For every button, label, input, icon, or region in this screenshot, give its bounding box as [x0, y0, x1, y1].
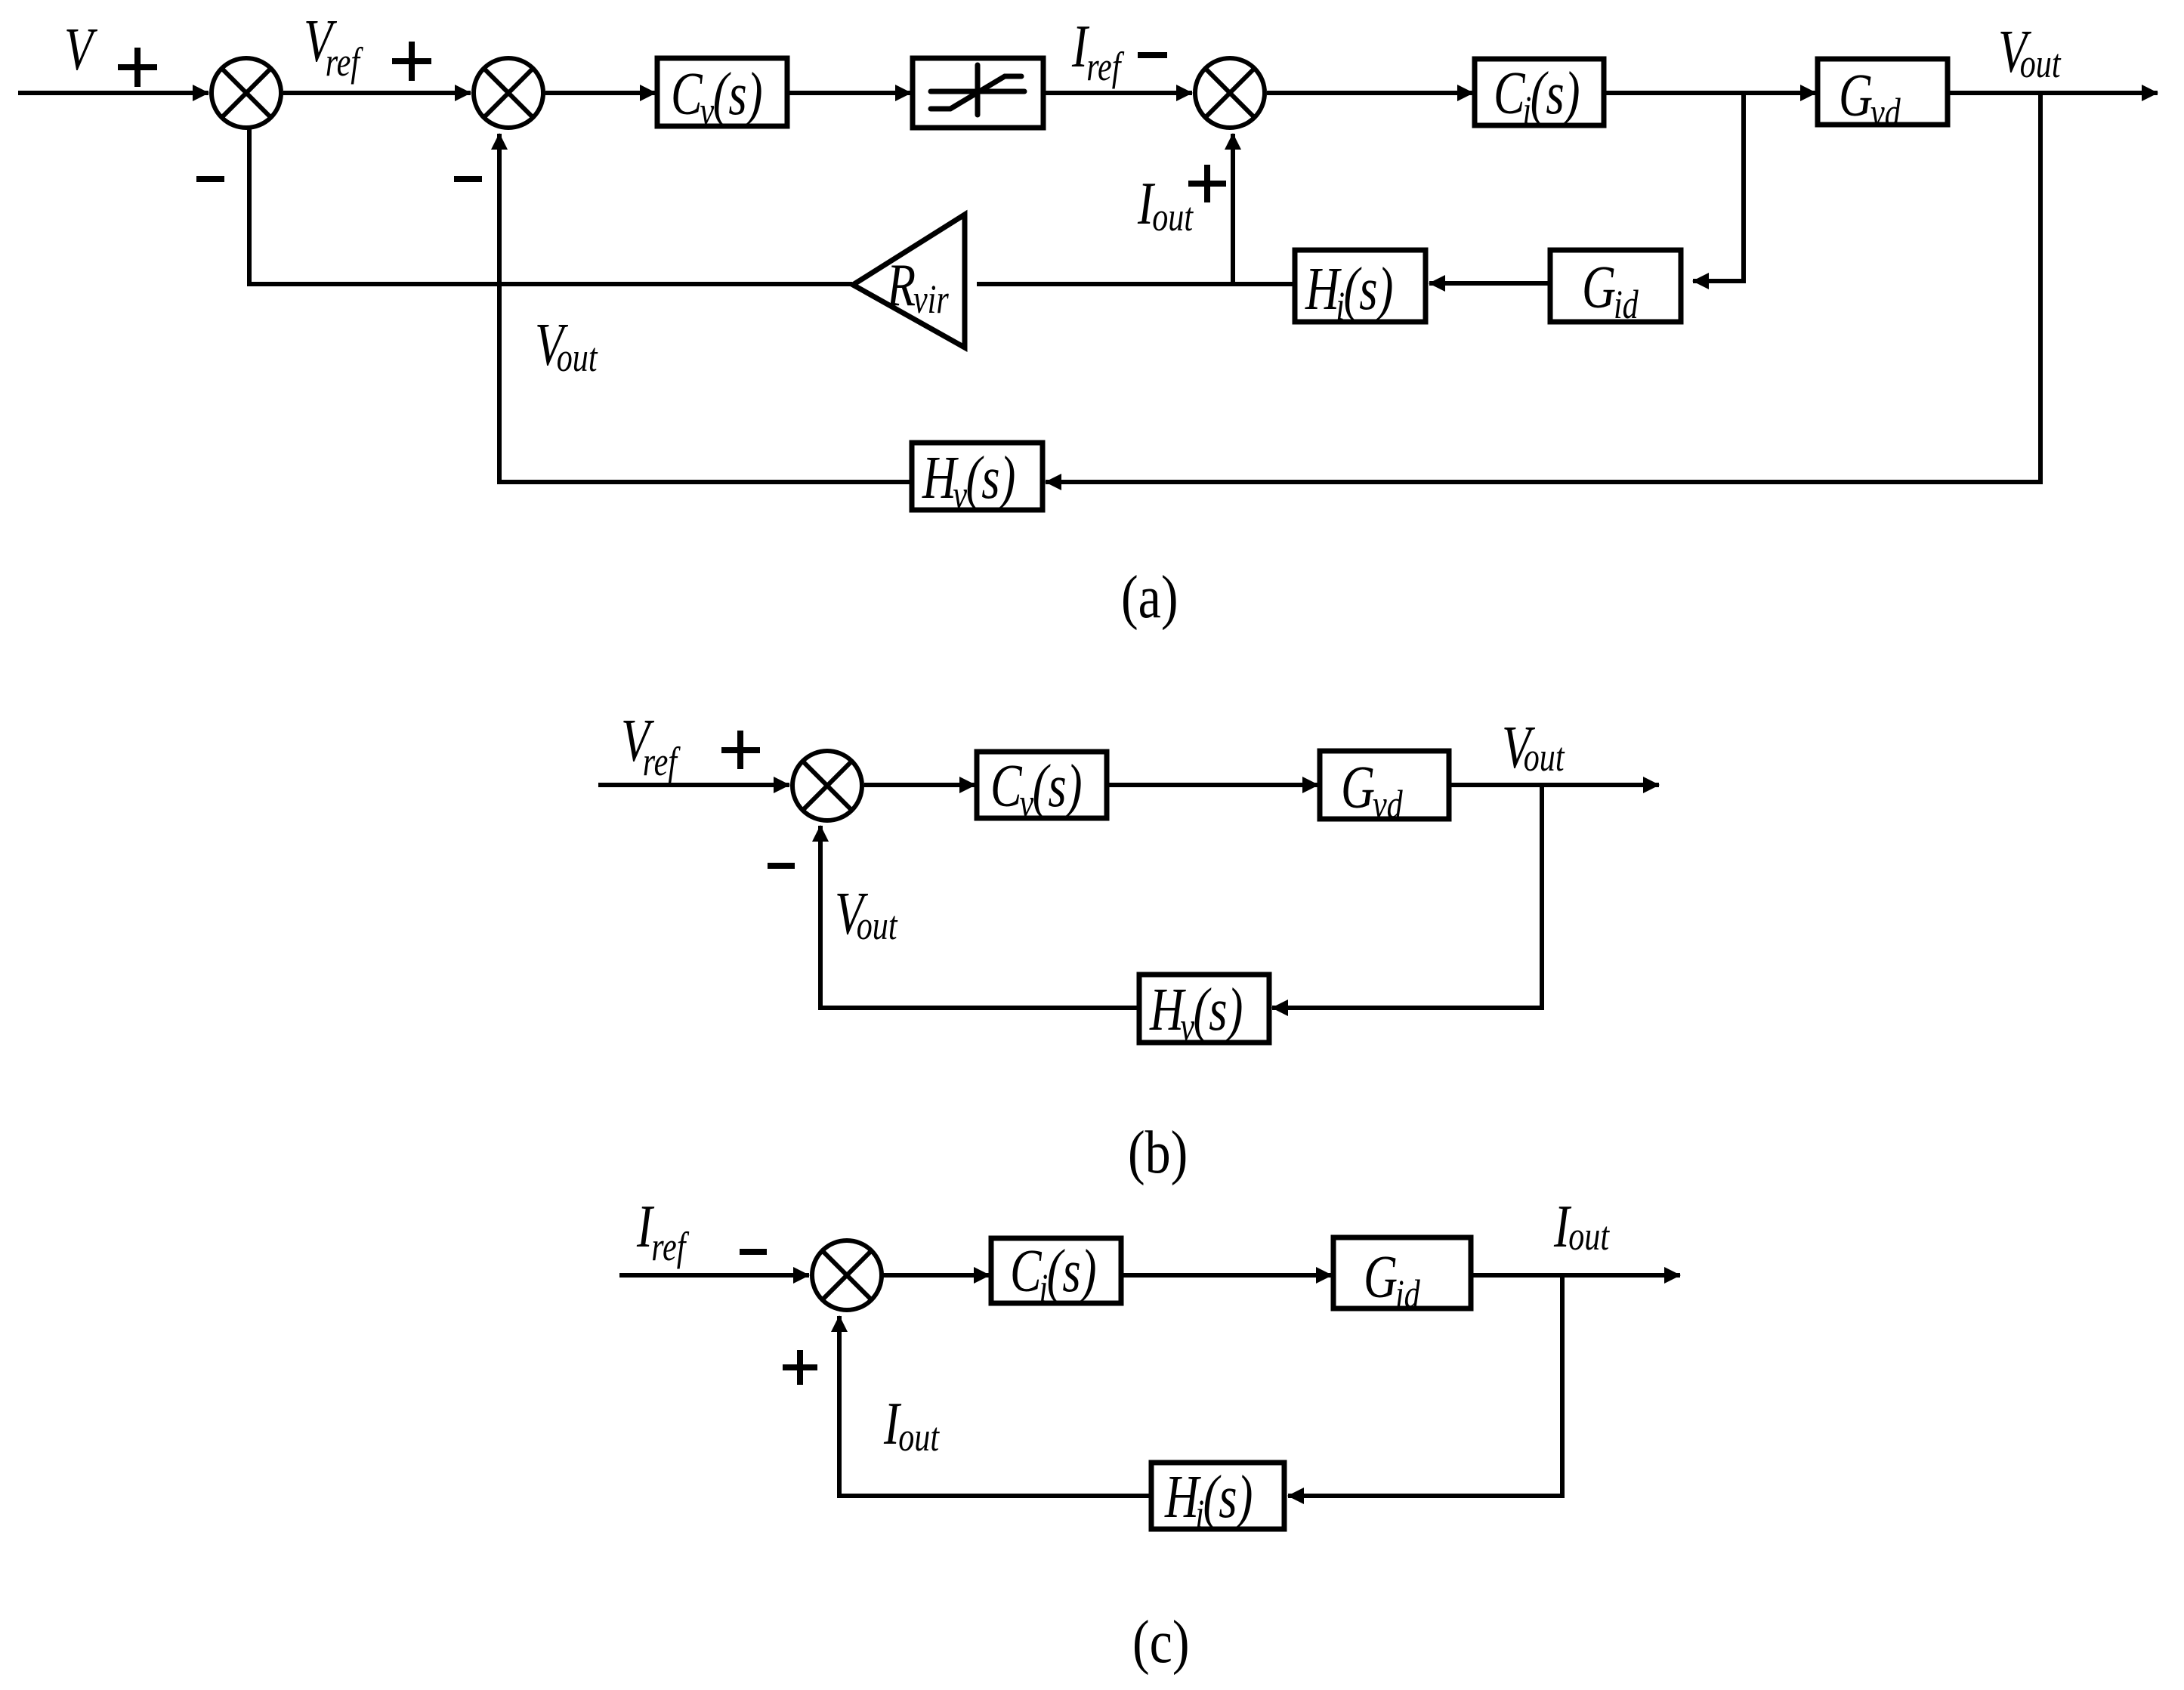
block Cv(s) [657, 58, 787, 126]
plus at sumb input [721, 747, 760, 753]
wire sum2 to Cv(s) [545, 91, 656, 95]
wire Hi(s) to sumc feedback (c) [839, 1316, 1151, 1496]
wire sumc to Ci(s) (c) [883, 1273, 990, 1278]
block Ci(s) (c) [991, 1238, 1121, 1303]
block Hv(s) (b) [1139, 975, 1269, 1043]
svg-text:Iout: Iout [1137, 170, 1194, 240]
wire Hv(s) to sumb feedback (b) [820, 826, 1139, 1008]
wire input Iref (c) [619, 1273, 809, 1278]
summing junction sum3 [1195, 58, 1265, 128]
saturation symbol inside limiter [931, 65, 1024, 115]
minus at sum1 feedback [196, 176, 224, 182]
svg-text:Hi(s): Hi(s) [1305, 255, 1393, 329]
block Hi(s) (c) [1151, 1463, 1284, 1529]
wire sum3 to Ci(s) [1267, 91, 1473, 95]
wire Gvd to output Vout [1948, 91, 2158, 95]
svg-text:Vout: Vout [1998, 18, 2062, 87]
svg-text:Vref: Vref [304, 8, 364, 85]
svg-text:Vref: Vref [621, 707, 681, 785]
wire Ci(s) to Gvd with junction at x=2308 [1604, 91, 1816, 95]
svg-text:Hv(s): Hv(s) [1149, 976, 1243, 1050]
wire Hv(s) to sum2 feedback [499, 134, 912, 482]
block Gid [1550, 250, 1681, 322]
svg-text:Cv(s): Cv(s) [671, 60, 762, 134]
wire Gvd to output Vout (b) [1449, 783, 1659, 787]
wire branch down from node 2308 into Gid [1693, 93, 1744, 281]
wire limiter to sum3 [1043, 91, 1192, 95]
summing junction sum1 [212, 58, 281, 128]
block Hi(s) [1295, 250, 1426, 322]
svg-text:Iref: Iref [636, 1193, 690, 1270]
summing junction sumb [792, 751, 862, 820]
block Hv(s) [912, 443, 1043, 510]
wire Vout branch down from node 2701 to Hv(s) [1046, 93, 2040, 482]
wire Rvir output to sum1 feedback [249, 129, 852, 284]
minus at sumc input [740, 1249, 767, 1255]
wire branch down from node 2068 to Hi(s) (c) [1288, 1275, 1562, 1496]
wire sum1 to sum2 [283, 91, 471, 95]
minus at sumb feedback [768, 863, 795, 869]
svg-text:Vout: Vout [835, 880, 898, 949]
svg-text:Iref: Iref [1071, 13, 1125, 90]
wire input V [18, 91, 209, 95]
block Ci(s) [1475, 59, 1604, 125]
wire Hi(s) to Rvir input [977, 282, 1295, 286]
labels (a) [64, 8, 2062, 518]
block Gvd (b) [1320, 751, 1449, 819]
svg-text:Vout: Vout [1502, 714, 1565, 781]
wire branch down from node 2041 to Hv(s) (b) [1272, 785, 1542, 1008]
svg-text:V: V [64, 16, 97, 83]
svg-text:Ci(s): Ci(s) [1010, 1237, 1096, 1312]
plus at sum2 input [392, 58, 431, 64]
svg-text:(c): (c) [1132, 1609, 1189, 1676]
summing junction sum2 [474, 58, 543, 128]
svg-text:Cv(s): Cv(s) [990, 752, 1082, 826]
svg-text:(a): (a) [1121, 564, 1178, 631]
svg-text:Hi(s): Hi(s) [1164, 1463, 1253, 1537]
wire Iout branch up into sum3 [1231, 134, 1235, 284]
wire Ci(s) to Gid (c) [1121, 1273, 1332, 1278]
svg-text:Ci(s): Ci(s) [1494, 60, 1580, 134]
svg-text:Iout: Iout [883, 1390, 940, 1460]
wire Gid to Hi(s) [1429, 281, 1550, 286]
summing junction sumc [812, 1240, 882, 1310]
plus at sumc feedback [783, 1364, 817, 1370]
amplifier Rvir triangle [853, 215, 965, 348]
minus at sum3 input [1138, 52, 1167, 58]
svg-text:(b): (b) [1128, 1120, 1188, 1186]
block Gvd [1818, 59, 1948, 125]
wire Gid to output Iout (c) [1471, 1273, 1680, 1278]
minus at sum2 feedback [454, 176, 482, 182]
wire Cv(s) to Gvd (b) [1107, 783, 1318, 787]
wire input Vref (b) [598, 783, 789, 787]
svg-text:Hv(s): Hv(s) [922, 444, 1015, 518]
block Gid (c) [1333, 1237, 1471, 1308]
plus/minus signs (a) [118, 42, 1226, 202]
block limiter (saturation) [913, 58, 1043, 128]
plus at sum1 input [118, 64, 157, 70]
wire sumb to Cv(s) (b) [864, 783, 975, 787]
wire Cv(s) to limiter [787, 91, 911, 95]
svg-text:Vout: Vout [535, 311, 598, 381]
plus at sum3 feedback [1188, 181, 1226, 187]
block Cv(s) (b) [977, 752, 1107, 818]
svg-text:Iout: Iout [1553, 1193, 1610, 1260]
